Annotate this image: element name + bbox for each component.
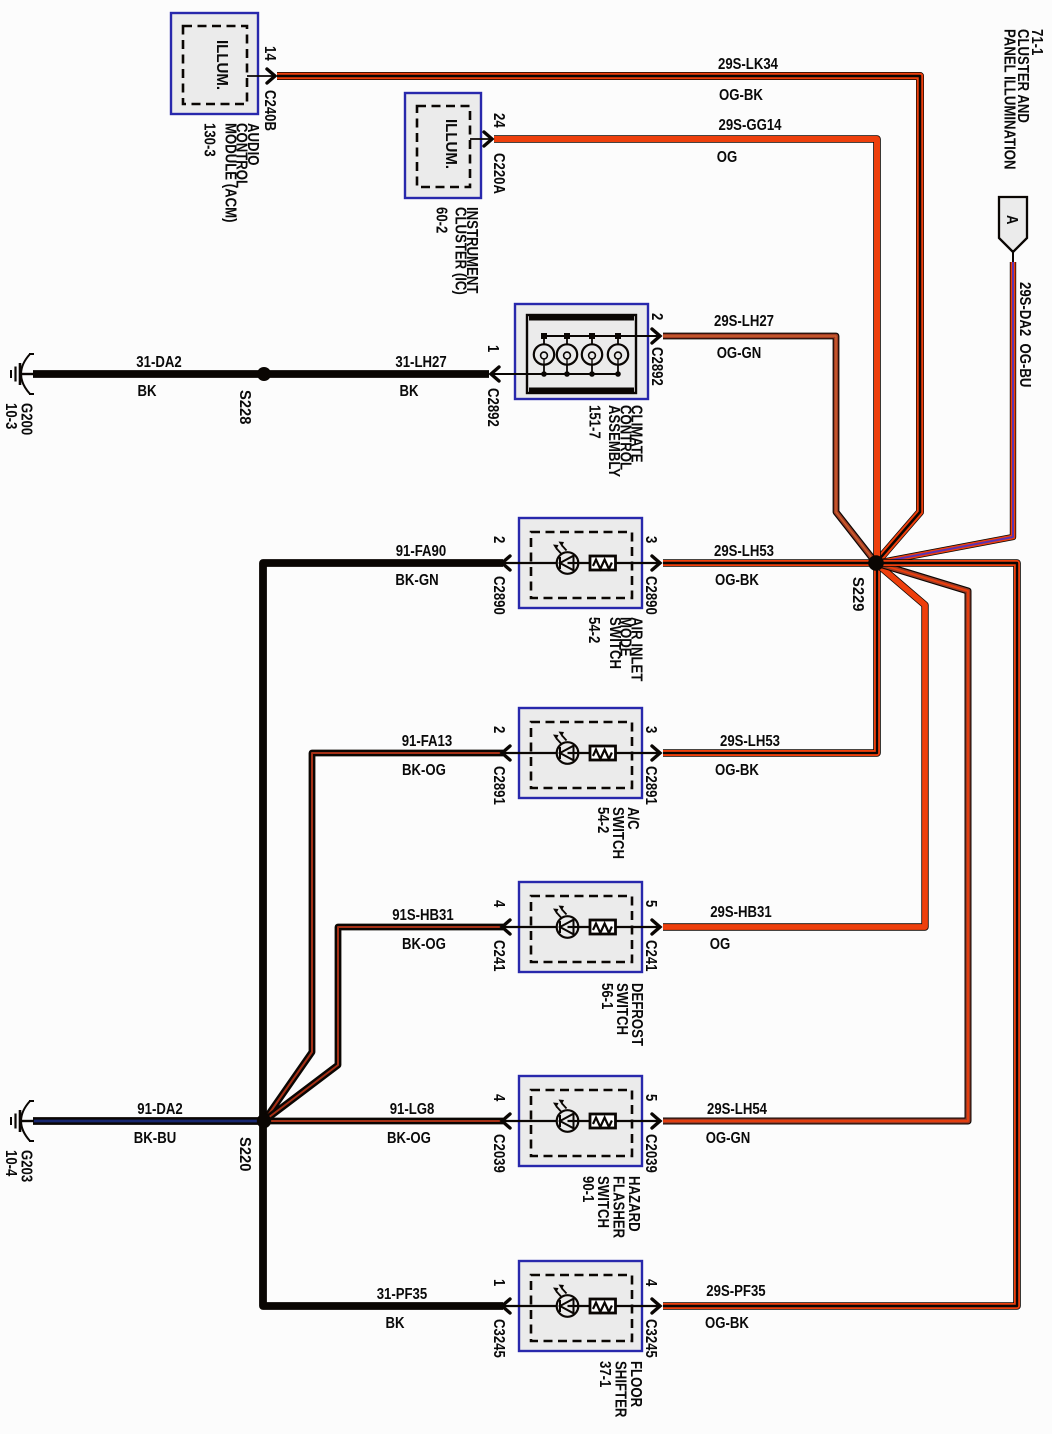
svg-text:OG-BK: OG-BK	[715, 762, 760, 779]
svg-text:2: 2	[490, 536, 507, 543]
svg-text:BK-GN: BK-GN	[395, 572, 438, 589]
svg-text:91-DA2: 91-DA2	[137, 1101, 182, 1118]
svg-text:29S-PF35: 29S-PF35	[706, 1283, 766, 1300]
svg-text:29S-GG14: 29S-GG14	[719, 117, 782, 134]
svg-text:1: 1	[484, 345, 501, 353]
svg-text:37-1: 37-1	[596, 1361, 613, 1388]
svg-text:29S-LH27: 29S-LH27	[714, 313, 774, 330]
svg-text:C2890: C2890	[490, 576, 507, 615]
svg-text:56-1: 56-1	[598, 983, 615, 1010]
svg-text:BK-OG: BK-OG	[402, 936, 446, 953]
svg-text:5: 5	[642, 1094, 659, 1102]
svg-text:BK: BK	[386, 1315, 406, 1332]
svg-text:54-2: 54-2	[594, 807, 611, 833]
svg-text:4: 4	[642, 1279, 659, 1287]
svg-text:S228: S228	[236, 390, 253, 425]
svg-text:ILLUM.: ILLUM.	[213, 40, 230, 90]
svg-text:MODULE (ACM): MODULE (ACM)	[221, 123, 238, 223]
svg-text:29S-LK34: 29S-LK34	[718, 56, 778, 73]
svg-text:10-3: 10-3	[2, 403, 19, 430]
svg-text:S220: S220	[236, 1137, 253, 1171]
svg-text:4: 4	[490, 900, 507, 908]
svg-text:C3245: C3245	[642, 1319, 659, 1358]
svg-text:91-FA13: 91-FA13	[402, 733, 453, 750]
svg-text:91-LG8: 91-LG8	[390, 1101, 435, 1118]
svg-text:5: 5	[642, 900, 659, 908]
svg-text:29S-LH53: 29S-LH53	[720, 733, 780, 750]
svg-text:29S-HB31: 29S-HB31	[710, 904, 772, 921]
svg-text:24: 24	[490, 113, 507, 128]
svg-text:BK-OG: BK-OG	[402, 762, 446, 779]
svg-text:SHIFTER: SHIFTER	[612, 1361, 629, 1417]
svg-text:C2039: C2039	[490, 1134, 507, 1173]
svg-text:14: 14	[261, 46, 278, 61]
svg-text:29S-LH54: 29S-LH54	[707, 1101, 767, 1118]
svg-text:C2890: C2890	[642, 576, 659, 615]
svg-text:CLUSTER (IC): CLUSTER (IC)	[452, 207, 469, 295]
svg-text:C220A: C220A	[490, 153, 507, 194]
svg-text:3: 3	[642, 536, 659, 544]
svg-text:2: 2	[490, 726, 507, 733]
svg-text:OG-BK: OG-BK	[705, 1315, 750, 1332]
svg-text:PANEL ILLUMINATION: PANEL ILLUMINATION	[1000, 29, 1017, 170]
svg-text:1: 1	[490, 1279, 507, 1287]
svg-text:ASSEMBLY: ASSEMBLY	[605, 405, 622, 478]
svg-text:C241: C241	[642, 940, 659, 972]
svg-text:G203: G203	[18, 1150, 35, 1183]
svg-text:SWITCH: SWITCH	[606, 617, 623, 669]
svg-text:C240B: C240B	[261, 90, 278, 131]
svg-text:FLOOR: FLOOR	[627, 1361, 644, 1407]
svg-text:C2039: C2039	[642, 1134, 659, 1173]
svg-text:OG-BK: OG-BK	[719, 87, 764, 104]
svg-text:31-LH27: 31-LH27	[395, 354, 446, 371]
svg-text:29S-LH53: 29S-LH53	[714, 543, 774, 560]
svg-text:91-FA90: 91-FA90	[396, 543, 447, 560]
svg-text:OG-BK: OG-BK	[715, 572, 760, 589]
svg-text:10-4: 10-4	[2, 1150, 19, 1177]
svg-text:C2891: C2891	[490, 766, 507, 805]
svg-text:BK: BK	[400, 383, 420, 400]
svg-text:OG-GN: OG-GN	[706, 1130, 751, 1147]
svg-text:S229: S229	[849, 577, 866, 612]
svg-text:29S-DA2 OG-BU: 29S-DA2 OG-BU	[1016, 282, 1033, 387]
svg-text:31-PF35: 31-PF35	[377, 1286, 428, 1303]
svg-text:31-DA2: 31-DA2	[136, 354, 181, 371]
svg-text:3: 3	[642, 726, 659, 734]
svg-text:ILLUM.: ILLUM.	[442, 119, 459, 169]
svg-text:OG-GN: OG-GN	[717, 345, 762, 362]
svg-text:BK: BK	[138, 383, 158, 400]
svg-text:90-1: 90-1	[579, 1176, 596, 1203]
svg-text:OG: OG	[717, 149, 738, 166]
svg-text:4: 4	[490, 1094, 507, 1102]
svg-text:C3245: C3245	[490, 1319, 507, 1358]
svg-text:C2892: C2892	[648, 347, 665, 386]
svg-text:A: A	[1003, 215, 1020, 225]
svg-text:2: 2	[648, 313, 665, 320]
svg-text:130-3: 130-3	[200, 123, 217, 157]
svg-text:151-7: 151-7	[586, 405, 603, 439]
svg-text:60-2: 60-2	[433, 207, 450, 233]
svg-text:C241: C241	[490, 940, 507, 972]
svg-text:BK-OG: BK-OG	[387, 1130, 431, 1147]
svg-text:C2892: C2892	[484, 388, 501, 427]
svg-text:G200: G200	[18, 403, 35, 435]
svg-text:OG: OG	[710, 936, 731, 953]
svg-text:C2891: C2891	[642, 766, 659, 805]
svg-text:BK-BU: BK-BU	[134, 1130, 176, 1147]
svg-text:91S-HB31: 91S-HB31	[392, 907, 454, 924]
svg-text:54-2: 54-2	[585, 617, 602, 643]
